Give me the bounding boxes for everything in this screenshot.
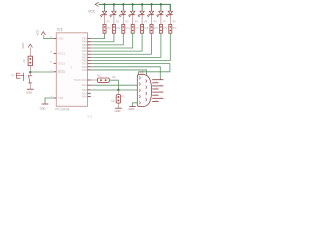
wire R3 to IC pin RB5 <box>91 33 124 45</box>
junction node R12 top <box>117 89 119 91</box>
junction node LED3 anode <box>122 3 124 5</box>
svg-text:RA2: RA2 <box>82 88 88 92</box>
wire R8 to IC pin RB0 <box>91 33 171 60</box>
wire VCC arrow to R9 <box>29 47 31 56</box>
svg-text:22k: 22k <box>112 75 117 79</box>
pin RB3 stub <box>88 50 91 52</box>
svg-text:R5: R5 <box>144 20 148 23</box>
wire LED6 anode stub <box>151 4 153 10</box>
wire junction to S1 <box>29 72 31 75</box>
junction node LED4 anode <box>132 3 134 5</box>
junction node LED2 anode <box>113 3 115 5</box>
pin stub 4 (DB9) <box>152 88 158 90</box>
pin RB7 stub <box>88 38 91 40</box>
svg-text:VCC: VCC <box>36 29 40 36</box>
svg-text:OSC2: OSC2 <box>58 61 66 65</box>
pin RB5 stub <box>88 44 91 46</box>
svg-text:VSS: VSS <box>58 96 63 100</box>
svg-text:R8: R8 <box>172 20 176 23</box>
junction node LED7 anode <box>160 3 162 5</box>
pin RA6 stub <box>88 66 91 68</box>
wire S1 to GND <box>29 83 31 89</box>
wire R2 to IC pin RB6 <box>91 33 114 42</box>
svg-text:R4: R4 <box>135 20 139 23</box>
resistor R4 <box>131 24 134 33</box>
wire RA2 to DB9 contact 3 <box>91 89 138 91</box>
LED LED6 <box>148 11 154 19</box>
pin stub 8 (DB9) <box>152 100 158 102</box>
pin RA2 stub <box>88 89 91 91</box>
LED LED2 <box>110 11 116 19</box>
svg-text:VCC: VCC <box>21 42 25 49</box>
wire LED6 cathode to R6 <box>151 20 153 25</box>
LED LED8 <box>166 11 172 19</box>
pin OSC1 stub <box>54 53 57 55</box>
wire LED2 cathode to R2 <box>113 20 115 25</box>
pin VCC symbol (VDD) <box>42 35 44 39</box>
switch S1 (push button) <box>16 73 32 84</box>
svg-text:RA3: RA3 <box>82 83 88 87</box>
pin stub 5 (DB9) <box>152 91 163 93</box>
svg-text:470: 470 <box>172 27 177 30</box>
svg-text:470: 470 <box>125 27 130 30</box>
pin VSS stub <box>54 97 57 99</box>
pin RB2 stub <box>88 53 91 55</box>
svg-text:4: 4 <box>51 70 53 72</box>
wire LED5 cathode to R5 <box>141 20 143 25</box>
resistor R1 <box>103 24 106 33</box>
junction node LED5 anode <box>141 3 143 5</box>
pin stub 3 (DB9) <box>152 85 163 87</box>
wire LED2 anode stub <box>113 4 115 10</box>
svg-text:470: 470 <box>163 27 168 30</box>
svg-text:VDD: VDD <box>58 37 64 41</box>
pin RB1 stub <box>88 56 91 58</box>
wire LED8 anode stub <box>169 4 171 10</box>
svg-text:X2: X2 <box>140 71 144 75</box>
svg-text:R2: R2 <box>122 96 126 99</box>
contact pin 4 arc (DB9) <box>145 86 148 89</box>
wire LED1 cathode to R1 <box>104 20 106 25</box>
wire LED1 anode stub <box>104 4 106 10</box>
junction node LED1 anode <box>103 3 105 5</box>
wire VCC to VDD pin <box>43 38 53 40</box>
pin RA5 stub <box>88 69 91 71</box>
svg-text:GND: GND <box>26 91 32 95</box>
svg-text:R1: R1 <box>107 20 111 23</box>
svg-text:IC1: IC1 <box>57 28 63 32</box>
svg-text:MCLR: MCLR <box>58 70 65 74</box>
resistor R5 <box>141 24 144 33</box>
svg-text:10k: 10k <box>23 58 26 63</box>
contact pin 9 arc (DB9) <box>138 101 141 104</box>
svg-text:R3: R3 <box>125 20 129 23</box>
pin MCLR stub <box>54 71 57 73</box>
overline MCLR <box>58 69 65 71</box>
wire LED5 anode stub <box>141 4 143 10</box>
wire LED8 cathode to R8 <box>169 20 171 25</box>
wire R9 to junction <box>29 66 31 73</box>
svg-text:PIC16F84: PIC16F84 <box>55 107 70 111</box>
LED LED7 <box>157 11 163 19</box>
pin stub 2 (DB9) <box>152 82 158 84</box>
svg-text:S1: S1 <box>11 73 15 77</box>
pin RA1 stub <box>88 92 91 94</box>
wire junction to MCLR pin <box>30 71 53 73</box>
contact pin 1 arc (DB9) <box>138 77 141 80</box>
junction node LED6 anode <box>150 3 152 5</box>
contact pin 7 arc (DB9) <box>138 95 141 98</box>
pin OSC2 stub <box>54 62 57 64</box>
wire LED4 anode stub <box>132 4 134 10</box>
LED LED3 <box>119 11 125 19</box>
svg-text:470: 470 <box>116 27 121 30</box>
svg-text:R6: R6 <box>154 20 158 23</box>
contact pin 8 arc (DB9) <box>145 98 148 101</box>
svg-text:RA0: RA0 <box>82 95 88 99</box>
pin RA3 stub <box>88 84 91 86</box>
supply VCC arrow (reset pullup) <box>28 44 32 47</box>
wire R4 to IC pin RB4 <box>91 33 133 48</box>
svg-text:15: 15 <box>50 61 53 63</box>
svg-text:R2: R2 <box>116 20 120 23</box>
svg-text:470: 470 <box>135 27 140 30</box>
wire DB9 shell to GND <box>133 103 138 106</box>
resistor R12 pulldown (vertical) <box>116 95 120 104</box>
svg-text:10k: 10k <box>111 100 116 103</box>
resistor R3 <box>122 24 125 33</box>
pin RA0 stub <box>88 96 91 98</box>
supply VCC arrow (VDD pin) <box>41 32 45 35</box>
svg-text:RA5: RA5 <box>82 68 88 72</box>
wire LED4 cathode to R4 <box>132 20 134 25</box>
op IC U/IC1 PIC16F84 box <box>56 33 87 107</box>
contact pin 5 arc (DB9) <box>138 89 141 92</box>
junction node MCLR <box>29 71 31 73</box>
svg-text:VCC: VCC <box>88 9 96 13</box>
LED LED4 <box>129 11 135 19</box>
pin RB0 stub <box>88 60 91 62</box>
wire LED3 anode stub <box>122 4 124 10</box>
svg-text:470: 470 <box>154 27 159 30</box>
pin R11 left <box>91 79 98 81</box>
svg-text:GND: GND <box>40 107 46 111</box>
wire net RA6 to DB9 pin stub <box>91 67 161 80</box>
wire R7 to IC pin RB1 <box>91 33 161 57</box>
pin RB4 stub <box>88 47 91 49</box>
resistor R8 <box>169 24 172 33</box>
pin RB6 stub <box>88 41 91 43</box>
pin stub 6 (DB9) <box>152 94 158 96</box>
resistor R11 22k (horizontal) <box>98 78 110 82</box>
wire LED3 cathode to R3 <box>122 20 124 25</box>
pin RA7 stub <box>88 63 91 65</box>
pin VDD stub <box>54 38 57 40</box>
resistor R2 <box>112 24 115 33</box>
wire RA3 to DB9 contact 2 <box>91 84 138 86</box>
wire R1 to IC pin RB7 <box>91 33 105 38</box>
contact pin 3 arc (DB9) <box>138 83 141 86</box>
resistor R9 pullup 10k <box>28 56 32 65</box>
ground GND (R12) <box>115 107 122 109</box>
svg-text:+: + <box>70 66 72 70</box>
svg-text:470: 470 <box>144 27 149 30</box>
resistor R7 <box>159 24 162 33</box>
svg-text:IC2: IC2 <box>88 114 93 118</box>
svg-text:GND: GND <box>128 107 134 111</box>
svg-text:T0CKI/RA4: T0CKI/RA4 <box>74 78 88 82</box>
LED LED1 <box>101 11 107 19</box>
ground GND (S1) <box>27 88 34 90</box>
wire R11 output <box>109 80 118 90</box>
pin stub 1 (DB9) <box>152 79 163 81</box>
contact pin 6 arc (DB9) <box>145 92 148 95</box>
wire net RA5 to DB9 top <box>91 70 147 75</box>
LED LED5 <box>138 11 144 19</box>
contact pin 2 arc (DB9) <box>145 80 148 83</box>
wire VSS to GND <box>45 98 54 104</box>
pin stub 7 (DB9) <box>152 97 163 99</box>
wire LED7 anode stub <box>160 4 162 10</box>
wire R12 to GND <box>117 103 119 108</box>
wire R5 to IC pin RB3 <box>91 33 142 51</box>
svg-text:OSC1: OSC1 <box>58 52 66 56</box>
supply VCC arrow (top rail) <box>95 2 98 6</box>
wire net RA7 to DB9 contact 1 <box>91 64 170 78</box>
pin T0CKI/RA4 stub <box>88 79 91 81</box>
svg-text:R7: R7 <box>163 20 167 23</box>
connector X2 DB9 outline <box>137 75 151 107</box>
wire R6 to IC pin RB2 <box>91 33 152 54</box>
resistor R6 <box>150 24 153 33</box>
svg-text:GND: GND <box>115 109 121 113</box>
ground GND (DB9) <box>129 106 135 108</box>
ground GND (VSS) <box>42 103 49 105</box>
wire junction to R12 <box>117 90 119 95</box>
wire LED7 cathode to R7 <box>160 20 162 25</box>
wire VCC rail <box>99 4 171 10</box>
svg-text:16: 16 <box>50 52 53 54</box>
svg-text:R11: R11 <box>97 73 102 77</box>
svg-text:470: 470 <box>107 27 112 30</box>
